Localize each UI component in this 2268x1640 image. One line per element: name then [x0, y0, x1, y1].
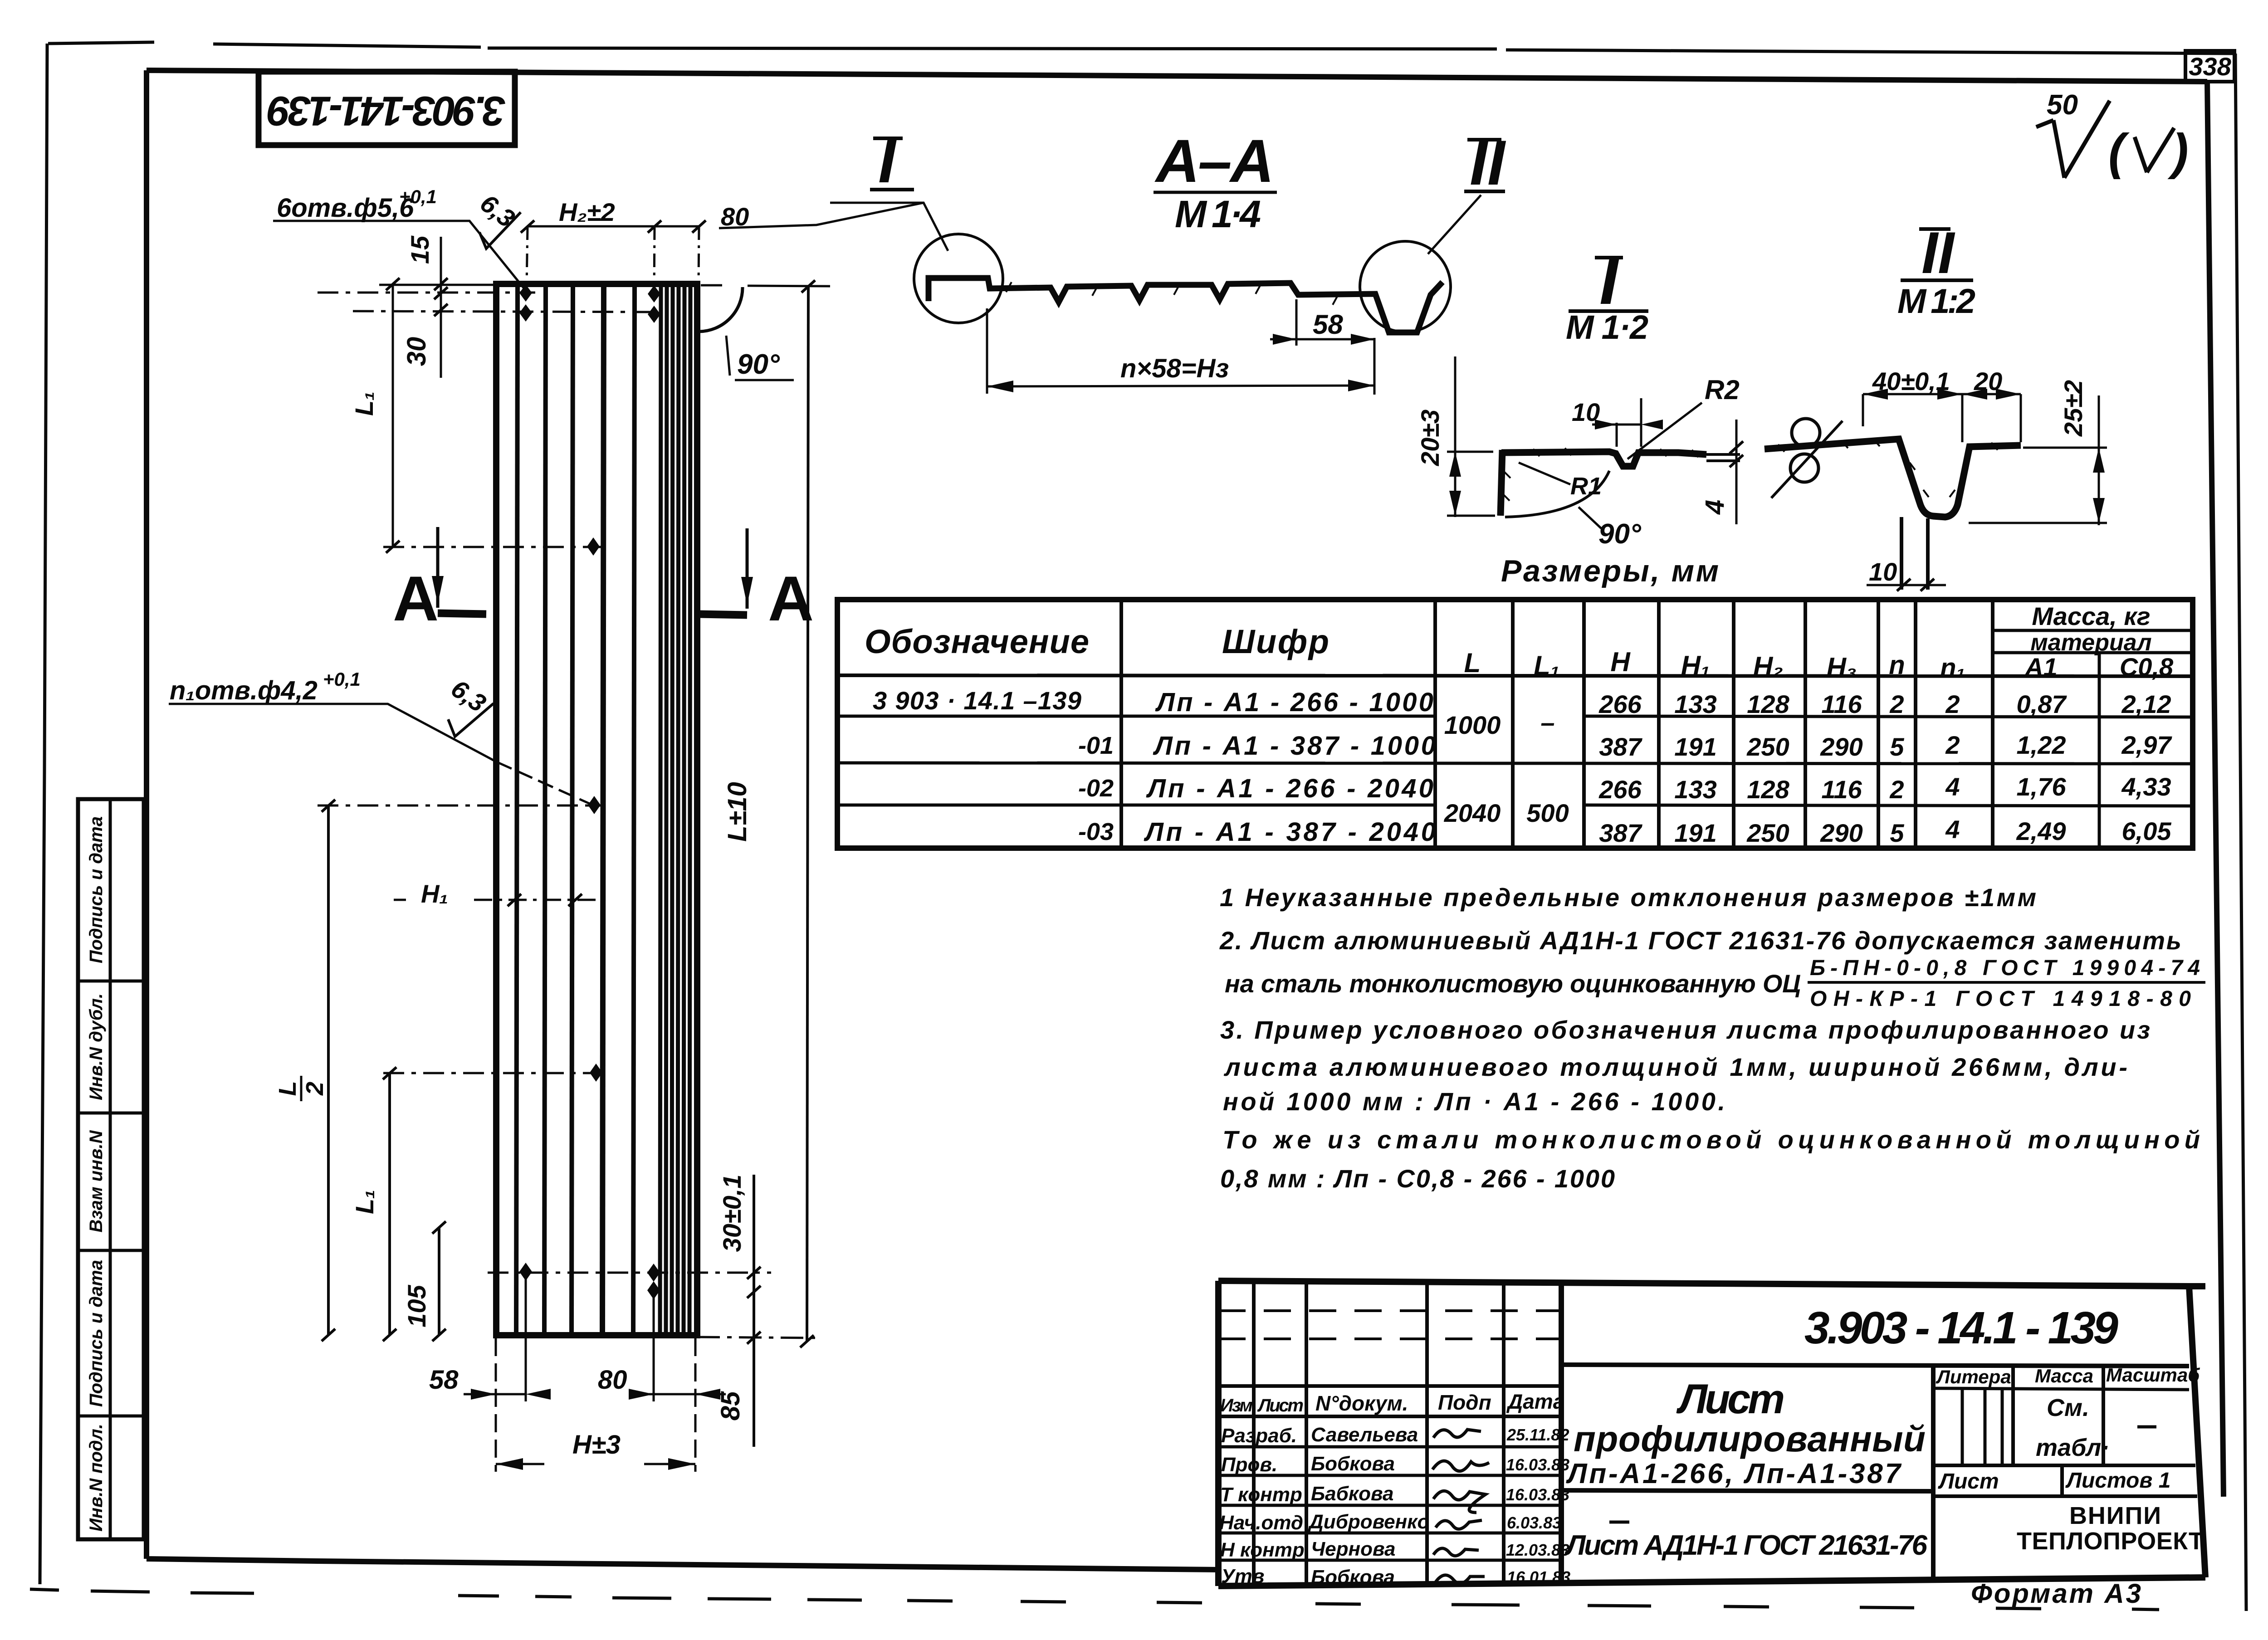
svg-text:3.903-141-139: 3.903-141-139 — [268, 88, 506, 134]
svg-text:Лп - А1 - 266 - 2040: Лп - А1 - 266 - 2040 — [1146, 774, 1433, 803]
svg-text:Формат А3: Формат А3 — [1971, 1578, 2141, 1609]
90 degree arc detail I — [1505, 471, 1609, 517]
svg-text:+0,1: +0,1 — [323, 669, 361, 690]
svg-text:133: 133 — [1674, 775, 1716, 804]
svg-text:Бобкова: Бобкова — [1311, 1453, 1395, 1475]
svg-text:290: 290 — [1820, 732, 1862, 761]
svg-text:H₂: H₂ — [1753, 651, 1783, 682]
svg-text:R2: R2 — [1705, 375, 1740, 405]
svg-text:A–A: A–A — [1154, 127, 1274, 195]
hole centerline row top1 — [318, 292, 535, 294]
svg-text:R1: R1 — [1570, 473, 1602, 500]
svg-text:L₁: L₁ — [1534, 650, 1560, 681]
svg-text:Нач.отд: Нач.отд — [1219, 1512, 1303, 1534]
svg-text:Лист АД1Н-1 ГОСТ 21631-76: Лист АД1Н-1 ГОСТ 21631-76 — [1564, 1530, 1928, 1561]
svg-text:I: I — [878, 125, 897, 196]
plan view rib line 1 — [516, 284, 518, 1335]
svg-text:85: 85 — [716, 1391, 745, 1420]
detail I profile top strip — [1501, 452, 1706, 466]
svg-text:на сталь тонколистовую оцин: на сталь тонколистовую оцинкованную ОЦ — [1225, 969, 1801, 998]
line under title cell — [1561, 1490, 1933, 1491]
detail II profile — [1765, 439, 2021, 517]
dimension 30 left — [434, 304, 448, 316]
svg-text:5: 5 — [1890, 732, 1904, 761]
svg-text:n: n — [1889, 650, 1905, 680]
svg-text:-01: -01 — [1078, 732, 1114, 759]
svg-text:6отв.ф5,6: 6отв.ф5,6 — [277, 193, 414, 223]
svg-text:H₃: H₃ — [1827, 652, 1857, 683]
section mark A right — [746, 528, 749, 609]
svg-text:Инв.N дубл.: Инв.N дубл. — [86, 993, 106, 1100]
dimension 4 — [1735, 420, 1738, 524]
svg-text:500: 500 — [1526, 799, 1569, 827]
svg-text:266: 266 — [1598, 775, 1642, 804]
dimension 20 plus minus 3 — [1447, 452, 1495, 516]
svg-text:10: 10 — [1869, 557, 1897, 586]
svg-text:L: L — [1464, 648, 1481, 678]
svg-text:табл·: табл· — [2036, 1434, 2109, 1461]
right columns divider — [1931, 1366, 1936, 1577]
svg-text:Лп - А1 - 387 - 2040: Лп - А1 - 387 - 2040 — [1144, 817, 1436, 847]
svg-text:С0,8: С0,8 — [2120, 653, 2174, 681]
svg-text:H₁: H₁ — [421, 879, 448, 908]
svg-text:Подп: Подп — [1438, 1391, 1491, 1414]
svg-text:20±3: 20±3 — [1416, 410, 1444, 466]
hole centerline mid3 — [383, 1072, 603, 1074]
svg-text:ВНИПИ: ВНИПИ — [2069, 1502, 2161, 1529]
hole top row2 col2 — [648, 306, 660, 323]
extension line x1443 — [654, 226, 655, 295]
hole centerline mid2 — [318, 805, 603, 807]
hole top row1 col1 — [519, 284, 532, 302]
detail II bottom tongue — [1901, 517, 1928, 590]
hole top row1 col2 — [648, 285, 660, 303]
svg-text:листа алюминиевого толщиной: листа алюминиевого толщиной 1мм, шириной… — [1223, 1053, 2127, 1081]
extension line x1541 — [699, 226, 699, 284]
svg-text:2. Лист алюминиевый АД1Н-1 ГОС: 2. Лист алюминиевый АД1Н-1 ГОСТ 21631-76… — [1219, 926, 2181, 955]
dimension 105 — [438, 1227, 440, 1335]
svg-text:250: 250 — [1746, 732, 1789, 761]
note 2 fraction bar — [1808, 981, 2205, 984]
svg-text:4: 4 — [1700, 500, 1730, 515]
svg-text:Лист: Лист — [1257, 1396, 1304, 1415]
svg-text:12.03.83: 12.03.83 — [1506, 1541, 1569, 1559]
svg-text:Дата: Дата — [1506, 1390, 1564, 1413]
detail circle I — [914, 234, 1003, 323]
svg-text:L±10: L±10 — [723, 782, 752, 842]
top edge extension right — [701, 285, 830, 286]
svg-text:ТЕПЛОПРОЕКТ: ТЕПЛОПРОЕКТ — [2017, 1528, 2204, 1555]
svg-text:Н контр: Н контр — [1220, 1539, 1305, 1561]
svg-text:3. Пример условного обозначе: 3. Пример условного обозначения листа пр… — [1220, 1015, 2150, 1044]
svg-text:116: 116 — [1821, 690, 1862, 718]
top-left inverted stamp box — [259, 72, 515, 145]
svg-text:L₁: L₁ — [350, 1190, 379, 1214]
svg-text:128: 128 — [1747, 775, 1789, 804]
svg-text:H: H — [1610, 647, 1631, 677]
svg-text:1,76: 1,76 — [2017, 772, 2067, 801]
dimension 58 section — [1296, 299, 1374, 395]
section A-A profile — [929, 278, 1442, 332]
hole centerline bottom — [488, 1272, 771, 1274]
title block main divider — [1559, 1283, 1564, 1585]
table mass column divider — [2098, 653, 2101, 848]
dimension L1 lower — [388, 1073, 391, 1335]
dimension L/2 — [327, 805, 330, 1335]
svg-text:58: 58 — [429, 1365, 459, 1395]
svg-text:Лп - А1 - 387 - 1000: Лп - А1 - 387 - 1000 — [1153, 731, 1436, 761]
svg-text:290: 290 — [1820, 819, 1862, 847]
svg-text:Лист: Лист — [1938, 1469, 1999, 1494]
rollers symbol — [1792, 419, 1820, 447]
svg-text:H₂±2: H₂±2 — [559, 198, 615, 226]
svg-text:Бобкова: Бобкова — [1311, 1566, 1395, 1588]
svg-text:См.: См. — [2047, 1394, 2089, 1421]
svg-text:4,33: 4,33 — [2121, 772, 2171, 801]
svg-text:90°: 90° — [737, 349, 780, 380]
литера масса масштаб dividers — [2013, 1366, 2103, 1465]
svg-text:2: 2 — [1889, 690, 1904, 718]
signature table dashed top rows — [1218, 1309, 1561, 1312]
bottom edge extension right — [697, 1337, 821, 1338]
dimension L1 upper — [379, 284, 496, 547]
svg-text:16.03.83: 16.03.83 — [1506, 1485, 1569, 1504]
svg-text:5: 5 — [1890, 819, 1904, 847]
svg-text:Савельева: Савельева — [1311, 1424, 1418, 1446]
svg-text:I: I — [1599, 242, 1620, 318]
section A-A hatch ticks — [1006, 282, 1338, 305]
svg-text:40±0,1: 40±0,1 — [1872, 367, 1950, 395]
svg-text:3.903 - 14.1 - 139: 3.903 - 14.1 - 139 — [1804, 1303, 2118, 1353]
svg-text:Т контр: Т контр — [1220, 1484, 1302, 1506]
plan view rib line 3 — [572, 284, 573, 1335]
svg-text:L₁: L₁ — [350, 391, 378, 416]
svg-text:Подпись и дата: Подпись и дата — [86, 1260, 106, 1407]
svg-text:Чернова: Чернова — [1311, 1538, 1395, 1560]
hole mid3 — [590, 1064, 602, 1082]
svg-text:133: 133 — [1674, 690, 1716, 718]
svg-text:Дибровенко: Дибровенко — [1307, 1511, 1429, 1533]
hole bottom row1 col2 — [647, 1264, 660, 1282]
svg-text:266: 266 — [1598, 690, 1642, 718]
svg-text:n₁отв.ф4,2: n₁отв.ф4,2 — [170, 676, 318, 705]
svg-text:А1: А1 — [2024, 653, 2058, 681]
svg-text:-03: -03 — [1078, 818, 1114, 845]
svg-text:+0,1: +0,1 — [399, 186, 437, 207]
svg-text:90°: 90° — [1598, 518, 1642, 550]
leader line n1 holes — [169, 704, 497, 762]
svg-text:A: A — [393, 563, 439, 634]
svg-text:25.11.82: 25.11.82 — [1506, 1425, 1569, 1444]
line under document number — [1561, 1365, 2189, 1366]
svg-text:191: 191 — [1674, 819, 1716, 847]
dimension n x 58 = H3 — [986, 308, 988, 394]
svg-text:20: 20 — [1974, 367, 2002, 395]
plan view rib line 2 — [544, 284, 546, 1335]
svg-text:25±2: 25±2 — [2059, 380, 2087, 437]
small dash in material cell — [1609, 1521, 1629, 1524]
svg-text:4: 4 — [1945, 772, 1960, 801]
left sidebar stamp column — [78, 799, 144, 1539]
svg-text:профилированный: профилированный — [1574, 1419, 1926, 1459]
svg-text:Изм: Изм — [1220, 1396, 1253, 1415]
svg-text:6,05: 6,05 — [2122, 817, 2172, 845]
svg-text:Утв: Утв — [1221, 1565, 1265, 1587]
sheet number box 338 — [2185, 51, 2234, 82]
leader line 6 holes — [273, 221, 525, 289]
svg-text:387: 387 — [1599, 732, 1642, 761]
plan view rib cluster lines — [660, 284, 690, 1335]
dimension 10 detail I — [1617, 398, 1641, 447]
table vertical lines — [1121, 600, 1993, 848]
plan view rib line 4 — [602, 284, 604, 1335]
dimension 25 plus minus 2 — [1969, 448, 2107, 523]
svg-text:16.03.83: 16.03.83 — [1506, 1455, 1569, 1474]
svg-text:30±0,1: 30±0,1 — [718, 1175, 746, 1252]
hole centerline mid1 — [383, 546, 603, 548]
svg-text:250: 250 — [1746, 819, 1789, 847]
dimension L plus minus 10 — [807, 286, 808, 1342]
svg-text:15: 15 — [406, 235, 434, 264]
svg-text:0,87: 0,87 — [2017, 690, 2068, 718]
svg-text:387: 387 — [1599, 819, 1642, 847]
svg-text:4: 4 — [1945, 815, 1960, 844]
svg-text:Литера: Литера — [1936, 1366, 2011, 1387]
detail I thin right extension — [1706, 454, 1740, 461]
svg-text:191: 191 — [1674, 732, 1716, 761]
svg-text:2: 2 — [301, 1082, 328, 1096]
svg-text:2: 2 — [1945, 731, 1960, 759]
line under literal row — [1933, 1464, 2195, 1467]
hole bottom row2 col2 — [647, 1281, 660, 1299]
svg-text:М 1·2: М 1·2 — [1566, 308, 1648, 346]
section mark A left — [436, 527, 440, 608]
svg-text:116: 116 — [1821, 775, 1862, 804]
detail I profile left leg — [1501, 450, 1502, 516]
svg-text:10: 10 — [1572, 398, 1600, 426]
svg-text:N°докум.: N°докум. — [1315, 1391, 1408, 1415]
svg-text:2,12: 2,12 — [2121, 690, 2171, 718]
svg-text:–: – — [1540, 708, 1554, 737]
svg-text:Пров.: Пров. — [1221, 1454, 1277, 1476]
svg-text:6.03.83: 6.03.83 — [1507, 1513, 1561, 1532]
outer paper edge left line — [40, 44, 47, 1584]
svg-text:338: 338 — [2189, 52, 2231, 81]
svg-text:Масса: Масса — [2035, 1365, 2093, 1386]
svg-text:Подпись и дата: Подпись и дата — [86, 816, 106, 963]
svg-text:16.01.83: 16.01.83 — [1507, 1568, 1570, 1586]
svg-text:II: II — [1470, 127, 1506, 198]
sidebar cell dividers — [78, 981, 144, 1416]
svg-text:2: 2 — [1945, 690, 1960, 718]
extension lines below sheet — [495, 1338, 497, 1472]
svg-text:3 903 · 14.1 –139: 3 903 · 14.1 –139 — [873, 686, 1081, 715]
outer paper edge bottom dashed line — [30, 1589, 2159, 1610]
svg-text:Обозначение: Обозначение — [865, 623, 1089, 660]
table mass sub lines — [1993, 630, 2193, 653]
plan view sheet outline — [496, 284, 697, 1335]
table row lines — [837, 716, 2193, 717]
dimension 80 top — [655, 225, 699, 228]
hole bottom col1 — [519, 1263, 532, 1281]
svg-text:Лист: Лист — [1676, 1376, 1785, 1422]
svg-text:М 1·4: М 1·4 — [1175, 193, 1261, 235]
svg-text:50: 50 — [2047, 89, 2078, 121]
hole mid2 — [588, 796, 601, 814]
svg-text:H±3: H±3 — [572, 1430, 621, 1459]
dimension 10 detail II — [1867, 584, 1946, 586]
dimension 30 plus minus 0.1 — [753, 1175, 755, 1447]
line under литера header — [1933, 1388, 2189, 1390]
hole mid1 — [587, 537, 600, 556]
литера cell small dividers — [1962, 1388, 2002, 1465]
svg-text:128: 128 — [1747, 690, 1789, 718]
svg-text:105: 105 — [402, 1284, 431, 1327]
svg-text:2,49: 2,49 — [2016, 817, 2066, 845]
svg-text:30: 30 — [402, 337, 431, 366]
svg-text:Инв.N подл.: Инв.N подл. — [86, 1424, 106, 1532]
svg-text:-02: -02 — [1078, 775, 1114, 802]
svg-text:n×58=Hз: n×58=Hз — [1120, 354, 1229, 383]
svg-text:материал: материал — [2030, 630, 2151, 656]
svg-text:2: 2 — [1889, 775, 1904, 804]
title block outline — [1218, 1281, 2205, 1586]
svg-text:Масса, кг: Масса, кг — [2032, 602, 2150, 630]
signature table header row lines — [1218, 1386, 1561, 1416]
dimensions table outline — [837, 600, 2193, 848]
svg-text:Разраб.: Разраб. — [1221, 1425, 1297, 1447]
svg-text:Бабкова: Бабкова — [1311, 1483, 1394, 1505]
svg-text:1,22: 1,22 — [2017, 731, 2066, 759]
detail circle II — [1360, 241, 1451, 332]
svg-text:H₁: H₁ — [1681, 650, 1710, 681]
outer paper edge right line — [2235, 54, 2246, 1611]
svg-text:Шифр: Шифр — [1222, 623, 1329, 660]
svg-text:2040: 2040 — [1444, 799, 1501, 827]
signatures scribbles — [1432, 1430, 1489, 1583]
svg-text:58: 58 — [1313, 309, 1343, 340]
dimension 15 — [440, 237, 442, 378]
Масштаб value dash — [2137, 1425, 2156, 1429]
sidebar column divider — [109, 799, 112, 1539]
angle 90 deg arc — [699, 287, 743, 332]
svg-text:1000: 1000 — [1444, 711, 1501, 739]
plan view rib line 5 — [633, 284, 635, 1335]
dimension 40 plus minus 0.1 and 20 — [1863, 393, 2021, 395]
svg-text:Масштаб: Масштаб — [2106, 1364, 2200, 1386]
svg-text:Б-ПН-0-0,8 ГОСТ 19904-74: Б-ПН-0-0,8 ГОСТ 19904-74 — [1810, 956, 2200, 980]
outer paper edge top line — [48, 42, 2234, 54]
table header bottom line — [837, 675, 2193, 676]
svg-text:Листов 1: Листов 1 — [2065, 1469, 2170, 1493]
signature table verticals — [1254, 1282, 1504, 1586]
svg-text:0,8 мм : Лп - С0,8 - 266 - 10: 0,8 мм : Лп - С0,8 - 266 - 1000 — [1220, 1164, 1615, 1193]
signature table row lines — [1218, 1447, 1561, 1560]
svg-text:2,97: 2,97 — [2121, 731, 2173, 759]
svg-text:Лп - А1 - 266 - 1000: Лп - А1 - 266 - 1000 — [1155, 688, 1433, 717]
detail II hatch ticks — [1778, 439, 1998, 497]
svg-text:Взам инв.N: Взам инв.N — [86, 1130, 106, 1232]
svg-text:Размеры, мм: Размеры, мм — [1501, 554, 1719, 588]
detail I hatch ticks — [1503, 448, 1698, 501]
svg-text:80: 80 — [598, 1365, 627, 1395]
hole centerline row top2 — [353, 311, 662, 312]
hole top row2 col1 — [519, 304, 532, 322]
svg-text:L: L — [274, 1081, 301, 1096]
svg-text:n₁: n₁ — [1940, 653, 1965, 683]
svg-text:М 1:2: М 1:2 — [1897, 282, 1975, 321]
extension line x1163 — [527, 226, 528, 286]
surface finish mark 50 with check — [2036, 89, 2189, 180]
svg-text:A: A — [768, 563, 814, 634]
